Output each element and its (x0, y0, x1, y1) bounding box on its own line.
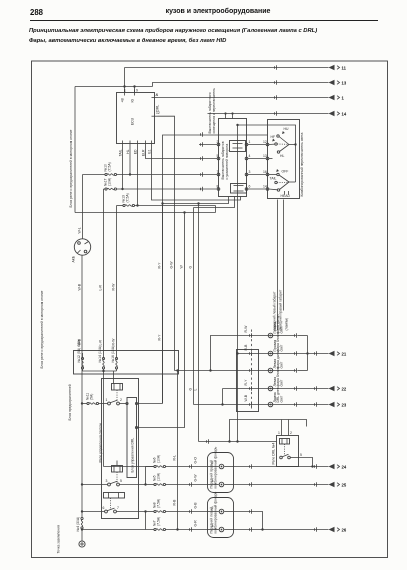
svg-text:G-B: G-B (194, 502, 198, 509)
node fuse3 out 134,205 (136, 204, 138, 206)
svg-text:W: W (180, 265, 184, 269)
wire ECU DRL row to arrow (208, 113, 329, 115)
svg-text:14: 14 (342, 112, 347, 117)
svg-text:Реле управления светом: Реле управления светом (99, 423, 103, 463)
svg-text:R-B: R-B (173, 499, 177, 506)
svg-text:(7,5A): (7,5A) (157, 517, 161, 526)
node 222,404 (221, 403, 223, 405)
connector A2 arrow y82 (329, 80, 347, 86)
row y484 right of comp1 to arrow (234, 484, 329, 486)
vertical x222 rows 388-404 (222, 389, 224, 405)
box A right pin circles (245, 143, 248, 190)
box A top pins from DRL row (224, 112, 233, 118)
connector A3 arrow y97 (329, 95, 345, 101)
long vertical x174 (174, 200, 176, 371)
tick on row441 (206, 439, 208, 444)
svg-text:IG: IG (131, 99, 135, 103)
svg-text:7: 7 (117, 506, 119, 510)
wire ECU pin drop x129.5 to row 174 (129, 147, 131, 175)
ticks before lamps x191 (189, 464, 191, 532)
relay R2 contacts (108, 481, 120, 486)
vertical x237 tail feed down to y441 (237, 125, 239, 442)
svg-text:R-W: R-W (112, 283, 116, 291)
svg-text:(лампы): (лампы) (285, 318, 289, 331)
svg-text:АКБ: АКБ (72, 255, 76, 262)
comp1 internal wires (208, 467, 234, 485)
svg-text:Блок управления DRL: Блок управления DRL (131, 438, 135, 473)
connector A1 arrow y67 (329, 65, 347, 71)
wire x103 down to row 466 (103, 371, 105, 467)
bus y419 over relay (230, 420, 307, 442)
box A inner compartment on row 188.5 (231, 184, 247, 194)
ticks before arrows x316 (314, 351, 316, 407)
row y484 left (82, 484, 108, 486)
svg-text:2: 2 (120, 398, 122, 402)
svg-text:11: 11 (342, 66, 347, 71)
fuse FL1 vertical at x82 y363 (77, 339, 84, 371)
box B internal pin stubs (266, 143, 277, 190)
node 262,529 (261, 528, 263, 530)
long vertical x184 battery to DRL control unit (138, 213, 185, 428)
svg-text:W-B: W-B (244, 394, 248, 401)
bulb left low beam (268, 366, 283, 390)
fuse FL2 vertical at x103 y363 (98, 346, 105, 371)
pin number labels (103, 89, 303, 529)
DRL relay contacts (280, 454, 299, 459)
inner box pins y403 (126, 402, 128, 404)
long vertical x198 (198, 204, 200, 442)
svg-text:HEAD: HEAD (281, 194, 291, 198)
wire inner box out y403 to x162 (138, 403, 163, 405)
svg-text:1: 1 (278, 431, 280, 435)
wire row y199.5 from ECU pin6 to box A pin (152, 147, 241, 201)
wire R2 out y484 (120, 484, 146, 486)
svg-text:16: 16 (263, 170, 267, 174)
relay R1 coil (112, 384, 123, 391)
svg-text:(7,5A): (7,5A) (108, 162, 112, 171)
node x81 y529 (81, 528, 83, 530)
wire R1 out to inner box (120, 403, 127, 405)
battery riser x82 (82, 175, 84, 240)
node 177,529 (176, 528, 178, 530)
wire R3 out y511 (117, 511, 146, 513)
wire labels at headlight connector (244, 325, 248, 402)
riser x103 from row188 to bus (103, 189, 105, 353)
feeder vertical x145 rows 466-484 (145, 467, 147, 485)
svg-text:G: G (189, 388, 193, 391)
svg-text:W-L: W-L (78, 227, 82, 233)
svg-text:HL: HL (126, 149, 130, 153)
svg-text:HF: HF (271, 135, 276, 139)
svg-text:(5A): (5A) (90, 394, 94, 400)
row y511 left (82, 511, 105, 513)
connector A9 arrow y484 (329, 482, 347, 488)
relay R1 dashed link (116, 390, 118, 402)
relay block outer box (102, 379, 139, 519)
svg-text:G-W: G-W (170, 261, 174, 269)
node fuse1 out 128,174 (129, 173, 131, 175)
svg-text:5: 5 (300, 453, 302, 457)
fuse FL3 vertical at x116 y363 (111, 346, 118, 371)
bulb right low beam (268, 331, 283, 355)
svg-text:Точка заземления: Точка заземления (57, 525, 61, 554)
svg-text:L: L (194, 389, 198, 391)
long vertical x177 to bottom rows (177, 371, 179, 530)
row y403 from battery line with fuse (82, 393, 108, 405)
headlight row y370 (175, 370, 297, 372)
ground point main (57, 525, 86, 554)
wire F3 right corner down to bus (215, 206, 217, 213)
svg-text:1: 1 (249, 140, 251, 144)
node 145,484 (144, 483, 146, 485)
ticks right of comps x251 (249, 464, 251, 532)
svg-text:2: 2 (212, 461, 214, 465)
wire top row 1 to arrow (125, 67, 329, 69)
tick on HU row (274, 95, 276, 100)
svg-text:6: 6 (103, 506, 105, 510)
ticks right of bulbs x296 (294, 333, 296, 407)
node bus/x184 (183, 211, 185, 213)
svg-text:OFF: OFF (282, 170, 289, 174)
row y466 from x103 (104, 466, 155, 468)
front combination lamp right (comp1) (208, 446, 234, 492)
relay R3 contacts (105, 508, 117, 513)
bulb right high beam (268, 314, 283, 338)
node x81 y511 (81, 510, 83, 512)
svg-text:2: 2 (290, 431, 292, 435)
front combination lamp left (comp2) (208, 491, 234, 537)
box A bottom pin drops with corners (163, 197, 229, 204)
wire row y144 stub into box A (199, 144, 217, 146)
svg-text:R-L: R-L (173, 455, 177, 461)
svg-text:24: 24 (342, 465, 347, 470)
svg-text:свет: свет (279, 379, 283, 386)
comp1 bulb bottom (219, 482, 224, 487)
wire row 2 to arrow (153, 83, 329, 87)
headlight row y404 (194, 404, 329, 406)
ECU pin right DRL (152, 105, 160, 117)
wire pin 234 corner y207 to x193 (194, 197, 235, 208)
DRL relay box right (272, 436, 299, 467)
svg-text:Реле DRL №4: Реле DRL №4 (272, 443, 276, 465)
svg-text:(7,5A): (7,5A) (126, 193, 130, 202)
node 162,203 (161, 202, 163, 204)
svg-text:26: 26 (342, 528, 347, 533)
node 229,441 (228, 440, 230, 442)
svg-text:1: 1 (212, 524, 214, 528)
svg-text:G-W: G-W (194, 474, 198, 482)
svg-text:3: 3 (249, 170, 251, 174)
wires box A to box B (248, 145, 266, 190)
connector A4 arrow y113 (329, 111, 347, 117)
svg-text:L-R: L-R (99, 339, 103, 345)
box A left pin circles (217, 143, 220, 190)
comp1 bulb top (219, 464, 224, 469)
node x81 y484 (81, 483, 83, 485)
svg-text:№14 (10A): №14 (10A) (98, 346, 102, 363)
svg-text:5: 5 (120, 479, 122, 483)
ticks before bottom arrows x316 (314, 464, 316, 532)
ECU U1 box (117, 93, 155, 144)
connector A10 arrow y529 (329, 527, 347, 533)
wire battery main vertical x74.5 (74, 87, 76, 213)
svg-text:Блок реле и предохранителей в: Блок реле и предохранителей в моторном о… (69, 129, 73, 207)
combination switch box B (268, 120, 305, 199)
ECU pin +B top 1 (121, 90, 125, 103)
comp2 bulb bottom (219, 527, 224, 532)
svg-text:TAIL: TAIL (270, 177, 277, 181)
svg-text:L-R: L-R (99, 284, 103, 290)
svg-text:4: 4 (156, 93, 158, 97)
ticks entering switch unit x202 (200, 132, 202, 191)
wire ECU DRL pin to long drop x174 (158, 116, 175, 200)
node 145,511 (144, 510, 146, 512)
wire battery bus y212 (75, 212, 216, 214)
svg-text:2: 2 (217, 140, 219, 144)
svg-text:13: 13 (342, 81, 347, 86)
svg-text:G: G (189, 266, 193, 269)
svg-text:(7,5A): (7,5A) (157, 499, 161, 508)
comp2 bulb top (219, 509, 224, 514)
svg-text:9: 9 (136, 89, 138, 93)
svg-text:12: 12 (263, 140, 267, 144)
connector A6 arrow y388 (329, 386, 347, 392)
row y466 right of comp1 to arrow (234, 466, 329, 468)
svg-text:4: 4 (249, 154, 251, 158)
svg-text:R-Y: R-Y (158, 334, 162, 341)
headlight row y335 (211, 336, 297, 371)
svg-text:комбинированный фонарь: комбинированный фонарь (214, 491, 218, 533)
svg-text:23: 23 (342, 403, 347, 408)
row y441 daytime running light feed (199, 441, 277, 443)
svg-text:6: 6 (249, 185, 251, 189)
fuse row y511 (146, 499, 208, 513)
svg-text:ECU: ECU (131, 117, 135, 125)
headlight assembly box faint (237, 350, 259, 412)
box B bottom drop wires to label block (273, 200, 289, 331)
fuse F3 row y205 (117, 193, 216, 206)
svg-text:Комбинированный переключатель: Комбинированный переключатель света (300, 133, 304, 197)
svg-text:(10A): (10A) (157, 455, 161, 463)
svg-text:8: 8 (217, 185, 219, 189)
comp2 internal wires (208, 512, 234, 530)
connector A7 arrow y404 (329, 402, 347, 408)
node 237,353 (236, 352, 238, 354)
wire labels mid verticals (158, 261, 198, 391)
wire ECU pin drop x122 to row 188 (122, 147, 124, 190)
bracket x307 joining rows 335-370 (297, 336, 328, 371)
wire ECU IG riser (134, 87, 136, 93)
svg-text:№4 (30A): №4 (30A) (76, 517, 80, 532)
tick on row 67 (274, 65, 276, 70)
relay top feed wires (282, 420, 289, 436)
dimmer switch S2 high/low (271, 127, 297, 158)
svg-text:G-O: G-O (194, 457, 198, 464)
node 312,466 (311, 465, 313, 467)
node 198,203 (197, 202, 199, 204)
fuse inline vertical on x81 at y524 (81, 517, 83, 529)
svg-text:HU: HU (284, 127, 289, 131)
connector A8 arrow y466 (329, 464, 347, 470)
svg-text:1: 1 (342, 96, 345, 101)
fuse F1 row y174 (83, 162, 218, 175)
fuse row y466 (146, 455, 208, 468)
relay R1 contacts (108, 400, 120, 405)
feeder vertical x145 rows 511-529 (145, 512, 147, 530)
svg-text:14: 14 (263, 185, 267, 189)
relay output wire to row466 (299, 458, 313, 467)
svg-text:(10A): (10A) (108, 178, 112, 186)
svg-text:13: 13 (263, 154, 267, 158)
headlight row y388 (223, 388, 329, 390)
row y529 right of comp2 to arrow (234, 529, 329, 531)
svg-text:Блок предохранителей: Блок предохранителей (68, 384, 72, 420)
svg-text:21: 21 (342, 352, 347, 357)
svg-text:комбинированный фонарь: комбинированный фонарь (214, 446, 218, 488)
tick on row 82 (274, 80, 276, 85)
switch unit box A (light control sub) (219, 119, 247, 197)
box A inner sub-box upper (230, 141, 246, 152)
wire ECU HU row to arrow (158, 97, 329, 99)
svg-text:G-R: G-R (194, 520, 198, 527)
DRL relay coil (280, 439, 290, 445)
lower fuse box outline (74, 351, 179, 375)
svg-text:1: 1 (212, 479, 214, 483)
fuse row y529 (82, 517, 208, 531)
headlight row y353 (238, 353, 308, 355)
wire sw common riser x295 (238, 125, 296, 182)
light control switch S3 (270, 169, 296, 198)
node fuse2 out 122,188.5 (121, 188, 123, 190)
svg-text:7: 7 (217, 170, 219, 174)
svg-text:освещения и переключатель: освещения и переключатель (212, 88, 216, 134)
svg-text:HL: HL (280, 154, 284, 158)
svg-text:R-Y: R-Y (158, 262, 162, 269)
svg-text:свет: свет (279, 395, 283, 402)
svg-text:1: 1 (106, 398, 108, 402)
node 177,370 (176, 369, 178, 371)
rotated labels left of switch unit (208, 88, 216, 134)
wire ECU pin drop x137 to row 205 (137, 147, 139, 206)
wire row y134 into box B (163, 135, 268, 404)
relay R2 dashed link (116, 472, 118, 483)
svg-text:ED: ED (134, 149, 138, 154)
svg-text:R-W: R-W (112, 338, 116, 346)
node junction at 124,86 (123, 85, 125, 87)
DRL relay dashed link (284, 444, 286, 456)
svg-text:+B: +B (121, 98, 125, 103)
svg-text:R-Y: R-Y (244, 379, 248, 386)
connector A5 arrow y353 (329, 351, 347, 357)
long vertical x162 switch to relay row (162, 204, 164, 404)
svg-text:R-B: R-B (244, 344, 248, 351)
svg-text:25: 25 (342, 483, 347, 488)
node x81 y403 (81, 402, 83, 404)
wire coil feed x113 (113, 371, 115, 384)
wire battery feed horizontal y86 (75, 86, 153, 88)
ECU pin right HU (152, 93, 159, 98)
svg-text:W-B: W-B (78, 283, 82, 290)
bulb DRL (268, 386, 283, 406)
svg-text:№16 (10A): №16 (10A) (111, 346, 115, 363)
node 210,370 (209, 369, 211, 371)
wire battery negative down x81 (81, 255, 83, 517)
svg-text:1: 1 (124, 89, 126, 93)
svg-text:ELR: ELR (142, 149, 146, 156)
wire colour labels bottom rows (173, 455, 198, 527)
ECU bottom pins (119, 141, 152, 157)
ECU pin top 2 (131, 90, 135, 103)
row y511 right of comp2 corner down (234, 512, 263, 530)
fuse F2 row y188.5 (104, 178, 218, 190)
svg-text:№12 (5A) ОБН: №12 (5A) ОБН (77, 339, 81, 363)
tick on DRL row (274, 111, 276, 116)
svg-text:12: 12 (156, 111, 160, 115)
fuse row y484 (146, 473, 208, 486)
relay R3 dashed link (110, 498, 112, 510)
bulb left high beam (268, 349, 283, 373)
battery G1 (72, 239, 91, 263)
bus under fuses y370.5 (83, 370, 117, 372)
wire ECU +B riser to top row (124, 68, 126, 93)
relay block inner control box (127, 398, 137, 478)
svg-text:22: 22 (342, 387, 347, 392)
node 103,370.5 (102, 370, 104, 372)
riser x116 from row205 to bus (116, 206, 118, 354)
node 237,441 (236, 440, 238, 442)
relay R3 coil (104, 493, 125, 499)
long vertical x193 (193, 208, 195, 405)
svg-text:5: 5 (217, 154, 219, 158)
svg-text:Блок реле и предохранителей в: Блок реле и предохранителей в моторном о… (40, 290, 44, 368)
wire ECU pin drop x145 corner to box A row158 (146, 147, 218, 159)
relay R2 coil (112, 461, 123, 473)
svg-text:и указателей поворота: и указателей поворота (225, 144, 229, 180)
svg-text:3: 3 (106, 479, 108, 483)
connector strip x251 (249, 330, 251, 410)
svg-text:2: 2 (212, 506, 214, 510)
svg-text:(10A): (10A) (157, 473, 161, 481)
svg-text:R-W: R-W (244, 325, 248, 333)
svg-text:E1: E1 (148, 149, 152, 153)
